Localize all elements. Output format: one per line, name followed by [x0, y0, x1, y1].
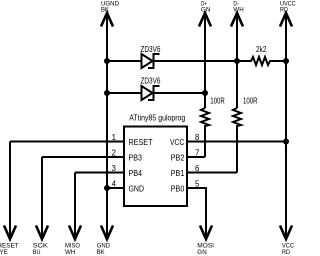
resistor R3 100R (D- line): [233, 96, 258, 172]
node VCC (bottom connector arrow): [280, 226, 294, 256]
wire pin6 PB1 to R3: [187, 172, 237, 174]
node UVCC (top connector arrow): [280, 0, 296, 26]
node MISO (bottom connector arrow): [65, 226, 81, 256]
svg-text:GN: GN: [201, 6, 210, 13]
svg-text:WH: WH: [233, 6, 243, 13]
wire pin4 GND to UGND rail: [107, 187, 124, 189]
svg-text:BU: BU: [33, 249, 41, 256]
svg-text:PB1: PB1: [171, 168, 185, 178]
svg-text:RD: RD: [282, 249, 290, 256]
svg-text:BK: BK: [101, 6, 109, 13]
svg-text:4: 4: [112, 179, 117, 188]
junction UVCC/R1: [283, 58, 289, 64]
junction D+/ZD2: [202, 90, 208, 96]
svg-text:100R: 100R: [210, 96, 225, 105]
resistor R1 2k2: [237, 45, 286, 65]
wire pin2 PB3 to bottom connector: [42, 156, 124, 158]
junction UGND/pin4: [104, 185, 110, 191]
svg-text:RD: RD: [280, 6, 288, 13]
svg-text:100R: 100R: [243, 96, 258, 105]
wire pin5 PB0 to bottom connector: [187, 188, 206, 239]
svg-text:ATtiny85 guloprog: ATtiny85 guloprog: [129, 112, 185, 122]
node MOSI (bottom connector arrow): [197, 226, 214, 256]
svg-text:YE: YE: [0, 249, 8, 256]
wire UVCC vertical rail: [285, 13, 287, 239]
svg-text:1: 1: [112, 133, 116, 142]
svg-text:8: 8: [195, 133, 199, 142]
svg-text:5: 5: [195, 179, 200, 188]
wire D+ vertical: [204, 13, 206, 108]
wire pin7 PB2 to R2: [187, 156, 205, 158]
node SCK (bottom connector arrow): [33, 226, 48, 256]
IC U1 pin name labels: [129, 137, 185, 194]
svg-text:VCC: VCC: [170, 137, 184, 147]
zener diode ZD1 ZD3V6 (upper): [107, 45, 237, 68]
svg-text:2k2: 2k2: [256, 45, 267, 54]
zener diode ZD2 ZD3V6 (lower): [107, 77, 205, 100]
svg-text:3: 3: [112, 164, 116, 173]
node UGND (top connector arrow): [101, 0, 119, 26]
svg-text:6: 6: [195, 164, 199, 173]
resistor R2 100R (D+ line): [201, 96, 225, 157]
wire D- vertical: [236, 13, 238, 108]
svg-text:GN: GN: [197, 249, 207, 256]
node RESET (bottom connector arrow): [0, 226, 19, 256]
wire pin8 VCC to UVCC rail: [187, 141, 286, 143]
svg-text:BK: BK: [97, 249, 105, 256]
svg-text:PB4: PB4: [129, 168, 143, 178]
svg-text:ZD3V6: ZD3V6: [141, 77, 161, 86]
node GND (bottom connector arrow): [97, 226, 113, 256]
junction UGND/ZD1: [104, 58, 110, 64]
wire UGND vertical rail: [106, 13, 108, 239]
svg-text:GND: GND: [129, 184, 145, 194]
svg-text:ZD3V6: ZD3V6: [141, 45, 161, 54]
node D- (top connector arrow): [231, 0, 244, 26]
junction UVCC/pin8: [283, 139, 289, 145]
svg-text:RESET: RESET: [129, 137, 153, 147]
IC U1 ATtiny85 guloprog body: [124, 112, 187, 206]
junction D-/R1: [234, 58, 240, 64]
junction UGND/ZD2: [104, 90, 110, 96]
svg-text:PB0: PB0: [171, 184, 185, 194]
node D+ (top connector arrow): [199, 0, 211, 26]
svg-text:PB3: PB3: [129, 153, 143, 163]
svg-text:2: 2: [112, 148, 116, 157]
svg-text:WH: WH: [65, 249, 75, 256]
wire pin3 PB4 to bottom connector: [75, 172, 124, 174]
IC U1 pin numbers: [112, 133, 200, 189]
svg-text:7: 7: [195, 148, 199, 157]
wire pin1 RESET to bottom connector: [10, 141, 124, 143]
svg-text:PB2: PB2: [171, 153, 185, 163]
